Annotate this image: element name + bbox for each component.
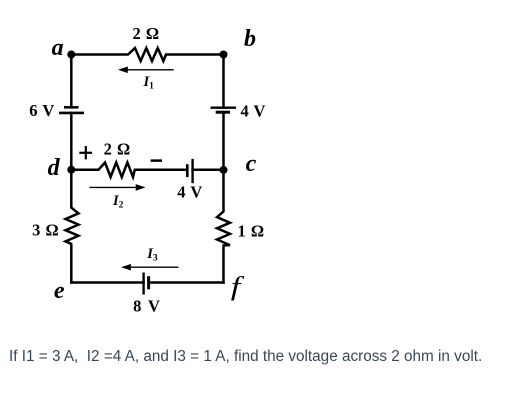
svg-text:2 Ω: 2 Ω [132,24,159,43]
svg-text:I3: I3 [146,246,158,264]
svg-text:4 V: 4 V [177,183,203,202]
svg-text:c: c [246,151,257,177]
svg-text:b: b [244,26,256,52]
svg-text:I1: I1 [143,74,155,92]
svg-text:a: a [52,35,64,61]
svg-text:3 Ω: 3 Ω [32,221,59,240]
svg-text:4 V: 4 V [240,102,266,121]
svg-text:2 Ω: 2 Ω [104,140,131,159]
svg-text:6 V: 6 V [29,101,55,120]
svg-text:e: e [54,278,65,304]
svg-text:f: f [231,272,245,301]
svg-text:d: d [48,155,61,181]
svg-text:8 V: 8 V [133,297,161,316]
svg-text:1 Ω: 1 Ω [237,222,264,241]
svg-text:I2: I2 [112,193,124,211]
